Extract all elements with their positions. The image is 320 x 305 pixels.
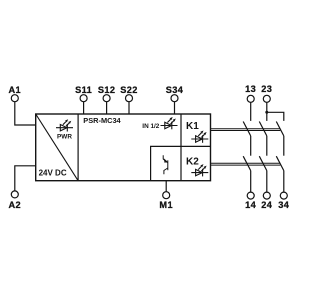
svg-text:S11: S11 bbox=[75, 85, 92, 95]
wire branch to 34 column bbox=[267, 112, 284, 121]
terminal 24 bbox=[263, 192, 270, 199]
svg-text:A2: A2 bbox=[9, 200, 22, 210]
svg-text:24V DC: 24V DC bbox=[39, 169, 67, 178]
K1 linkage double line bbox=[211, 128, 281, 130]
contact K2 13-14 blade bbox=[243, 156, 251, 170]
svg-text:34: 34 bbox=[278, 200, 290, 210]
wire 23 down bbox=[266, 102, 268, 121]
svg-text:14: 14 bbox=[245, 200, 257, 210]
svg-text:S22: S22 bbox=[120, 85, 138, 95]
contact K1 13-14 blade bbox=[243, 122, 251, 136]
semiconductor switch symbol bbox=[163, 155, 168, 174]
relay K1/K2 section divider bbox=[180, 114, 182, 181]
wire col3 to terminal 34 bbox=[283, 171, 285, 193]
wire col1 mid bbox=[250, 136, 252, 156]
terminal 34 bbox=[280, 192, 287, 199]
terminal 14 bbox=[247, 192, 254, 199]
terminal S34 bbox=[171, 95, 178, 102]
power supply section divider bbox=[77, 114, 79, 181]
contact K2 34 blade bbox=[276, 156, 284, 170]
wire S22 bbox=[128, 102, 130, 114]
LED K2 bbox=[191, 164, 208, 176]
input section box bbox=[151, 146, 181, 180]
wire M1 bbox=[165, 181, 167, 192]
contact K1 34 blade bbox=[276, 122, 284, 136]
wire S11 bbox=[83, 102, 85, 114]
terminal 23 bbox=[263, 95, 270, 102]
svg-text:M1: M1 bbox=[159, 200, 173, 210]
svg-text:PSR-MC34: PSR-MC34 bbox=[83, 116, 121, 125]
svg-text:24: 24 bbox=[261, 200, 273, 210]
contact K2 23-24 blade bbox=[259, 156, 267, 170]
terminal S12 bbox=[103, 95, 110, 102]
svg-text:23: 23 bbox=[261, 84, 272, 94]
svg-text:IN 1/2: IN 1/2 bbox=[142, 123, 159, 130]
svg-text:K1: K1 bbox=[186, 121, 199, 132]
LED IN 1/2 bbox=[161, 117, 178, 129]
wire col2 mid bbox=[266, 136, 268, 156]
terminal M1 bbox=[163, 192, 170, 199]
svg-text:S12: S12 bbox=[98, 85, 116, 95]
wire col3 mid bbox=[283, 136, 285, 156]
relay body box bbox=[36, 114, 211, 181]
svg-text:S34: S34 bbox=[166, 85, 184, 95]
LED PWR bbox=[56, 119, 73, 131]
contact K1 23-24 blade bbox=[259, 122, 267, 136]
K1/K2 boxes divider bbox=[181, 145, 211, 147]
wire S12 bbox=[106, 102, 108, 114]
K2 linkage double line bbox=[211, 162, 281, 164]
wire col2 to terminal 24 bbox=[266, 171, 268, 193]
terminal 13 bbox=[247, 95, 254, 102]
svg-text:A1: A1 bbox=[9, 85, 22, 95]
terminal A1 bbox=[11, 95, 18, 102]
power supply diagonal bbox=[36, 114, 78, 181]
wire S34 bbox=[174, 102, 176, 114]
wire A1 to box bbox=[15, 102, 36, 125]
node junction at 23 branch bbox=[265, 111, 268, 114]
svg-text:13: 13 bbox=[245, 84, 256, 94]
wire A2 to box bbox=[15, 166, 36, 191]
terminal S22 bbox=[126, 95, 133, 102]
LED K1 bbox=[191, 131, 208, 143]
wire 13 down bbox=[250, 102, 252, 121]
terminal A2 bbox=[11, 191, 18, 198]
svg-text:PWR: PWR bbox=[57, 133, 72, 140]
svg-text:K2: K2 bbox=[186, 157, 199, 168]
wire col1 to terminal 14 bbox=[250, 171, 252, 193]
terminal S11 bbox=[80, 95, 87, 102]
